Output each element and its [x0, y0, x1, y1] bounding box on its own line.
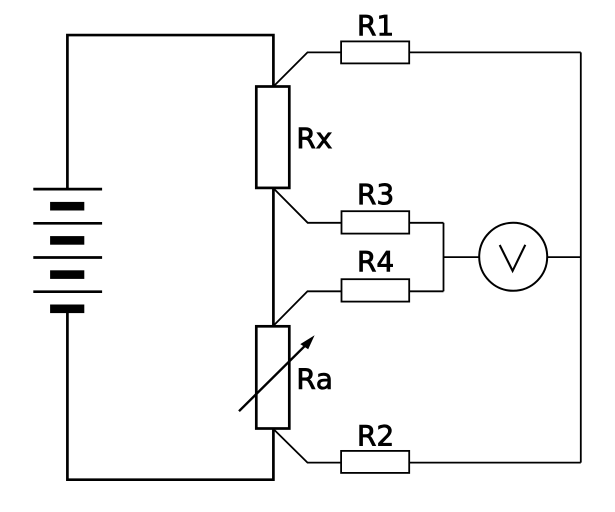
wire: vertical connector R3/R4	[443, 223, 445, 291]
wire: R1 to right rail	[409, 51, 581, 53]
wire: R2 to right rail	[409, 462, 581, 464]
wire: voltmeter to right rail	[547, 256, 581, 258]
wire: R3 right to connector	[409, 222, 443, 224]
resistor R3	[342, 211, 410, 233]
wire: right rail	[580, 52, 582, 462]
battery B1	[33, 189, 102, 313]
variable resistor Ra	[239, 326, 315, 428]
wire: left wire top (battery + to top rail)	[67, 35, 273, 189]
wire: diagonal Ra top to R4	[273, 291, 341, 326]
label R1	[360, 15, 392, 35]
wire: left wire bottom (battery - to bottom rail)	[67, 310, 273, 480]
resistor Rx	[256, 87, 289, 188]
wire: diagonal Rx top to R1	[273, 52, 341, 86]
label R4	[360, 251, 393, 271]
label R3	[360, 183, 392, 204]
wire: connector to voltmeter	[444, 256, 480, 258]
wire: diagonal Ra bottom to R2	[273, 429, 341, 463]
resistor R2	[341, 451, 409, 473]
label R2	[360, 425, 392, 446]
label Ra	[299, 368, 330, 389]
voltmeter V	[479, 223, 547, 291]
resistor R4	[342, 279, 410, 301]
label Rx	[299, 128, 331, 148]
wire: diagonal Rx bottom to R3	[273, 188, 341, 223]
wire: R4 right to connector	[409, 290, 443, 292]
resistor R1	[341, 41, 409, 63]
wire: middle branch Rx bottom to Ra top	[272, 188, 275, 327]
